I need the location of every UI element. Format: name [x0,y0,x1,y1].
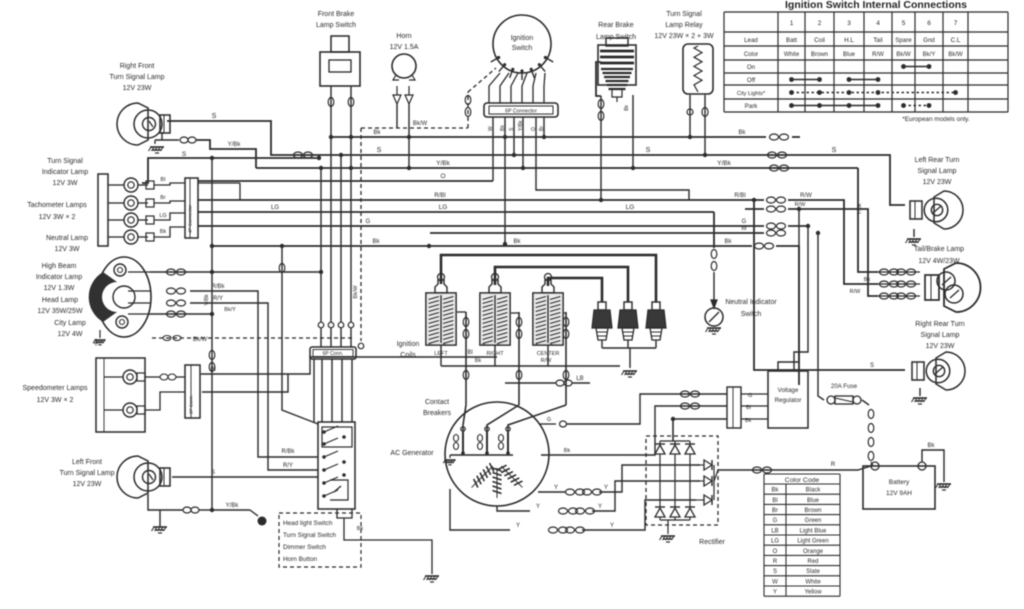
svg-text:LG: LG [271,205,279,211]
svg-text:S: S [377,147,382,154]
svg-text:S: S [870,363,874,369]
svg-text:Y: Y [516,523,520,529]
svg-text:Switch: Switch [512,45,533,52]
svg-text:S: S [773,569,777,575]
svg-text:Br: Br [539,126,545,131]
svg-text:H.L: H.L [844,37,854,44]
svg-text:Y: Y [598,504,602,510]
svg-text:Br: Br [772,508,778,514]
svg-text:Tail/Brake Lamp: Tail/Brake Lamp [914,246,964,253]
svg-text:Rectifier: Rectifier [699,539,725,546]
svg-text:12V 3W × 2: 12V 3W × 2 [37,397,74,404]
svg-text:Batt: Batt [786,37,797,44]
svg-text:Y: Y [773,590,777,596]
svg-text:Horn Button: Horn Button [283,556,318,563]
svg-text:Switch: Switch [741,311,762,318]
svg-text:20A Fuse: 20A Fuse [831,383,858,390]
svg-text:Lead: Lead [744,37,758,44]
svg-text:LG: LG [771,539,779,545]
svg-text:Bl: Bl [467,350,472,356]
svg-text:Right Front: Right Front [120,63,155,70]
svg-text:Bk: Bk [372,239,380,245]
svg-text:R/W: R/W [795,202,807,208]
svg-text:Turn Signal Lamp: Turn Signal Lamp [110,74,165,81]
svg-text:Rear Brake: Rear Brake [598,22,634,29]
svg-text:G: G [773,518,778,524]
svg-text:LB: LB [771,528,778,534]
svg-text:High Beam: High Beam [42,263,77,270]
svg-text:R/W: R/W [541,358,553,364]
svg-text:4: 4 [876,20,880,27]
svg-text:Tachometer Lamps: Tachometer Lamps [27,202,87,209]
svg-text:S: S [646,147,651,154]
svg-text:12V 9AH: 12V 9AH [886,490,912,497]
svg-text:Gnd: Gnd [923,37,935,44]
svg-text:Y/Bk: Y/Bk [717,160,731,167]
svg-text:R/Bk: R/Bk [281,449,295,455]
svg-text:Orange: Orange [803,549,824,555]
svg-text:2P Conn.: 2P Conn. [189,395,194,414]
svg-text:LG: LG [159,213,166,219]
svg-text:RIGHT: RIGHT [486,351,504,357]
svg-text:*European models only.: *European models only. [902,116,970,123]
svg-text:Y: Y [604,485,608,491]
svg-text:Turn Signal Lamp: Turn Signal Lamp [60,470,115,477]
svg-text:Bk: Bk [927,443,935,449]
svg-text:City Lights*: City Lights* [737,91,766,97]
svg-text:Color Code: Color Code [785,477,820,484]
svg-text:Bk: Bk [357,526,364,532]
svg-text:Bk: Bk [738,130,746,136]
svg-text:Slate: Slate [806,569,820,575]
svg-text:Y: Y [536,504,540,510]
svg-text:O: O [440,173,445,180]
svg-text:Y/Bk: Y/Bk [518,120,524,131]
svg-text:12V 23W × 2 + 3W: 12V 23W × 2 + 3W [654,33,714,40]
svg-text:Head light Switch: Head light Switch [283,520,333,527]
svg-text:Bk: Bk [624,105,630,111]
svg-text:12V 23W: 12V 23W [73,481,102,488]
svg-text:Signal Lamp: Signal Lamp [921,332,960,339]
svg-text:Battery: Battery [889,479,910,486]
svg-text:12V 23W: 12V 23W [123,85,152,92]
svg-text:Regulator: Regulator [775,397,802,404]
svg-text:G: G [547,417,551,423]
svg-text:LG: LG [626,204,635,211]
svg-text:Bk/Y: Bk/Y [224,307,236,313]
svg-text:R/W: R/W [800,193,812,199]
svg-text:R/Y: R/Y [283,463,293,469]
svg-text:Lamp Switch: Lamp Switch [596,34,636,41]
svg-text:S: S [211,470,215,476]
svg-text:Speedometer Lamps: Speedometer Lamps [23,385,88,392]
svg-text:Bk: Bk [160,229,167,235]
svg-text:Bk/W: Bk/W [948,52,963,58]
svg-text:Green: Green [805,518,822,524]
svg-text:W: W [741,226,747,232]
svg-text:3: 3 [847,20,851,27]
svg-text:S: S [212,113,217,120]
svg-text:Light Blue: Light Blue [800,528,827,534]
svg-text:Lamp Switch: Lamp Switch [316,22,356,29]
svg-text:Bk/W: Bk/W [353,285,359,299]
svg-text:Coil: Coil [814,37,825,44]
svg-text:Bk/Y: Bk/Y [923,52,936,58]
svg-text:White: White [784,52,800,58]
svg-text:S: S [182,151,187,158]
svg-text:Color: Color [744,52,758,58]
svg-text:R/Bk: R/Bk [211,284,225,290]
svg-text:Brown: Brown [804,508,821,514]
svg-text:Indicator Lamp: Indicator Lamp [36,274,82,281]
svg-text:12V 3W: 12V 3W [53,180,78,187]
svg-text:12V 4W: 12V 4W [58,331,83,338]
svg-text:12V 23W: 12V 23W [926,343,955,350]
svg-text:Bl: Bl [161,177,166,183]
svg-text:Left Rear Turn: Left Rear Turn [915,157,960,164]
svg-text:12V 1.3W: 12V 1.3W [44,285,75,292]
svg-text:Bk: Bk [373,130,381,136]
svg-text:12V 4W/23W: 12V 4W/23W [918,258,960,265]
svg-text:Left Front: Left Front [72,459,102,466]
svg-text:Bk/W: Bk/W [896,52,911,58]
svg-text:6P Connector: 6P Connector [505,109,537,115]
svg-text:Turn Signal: Turn Signal [666,11,702,18]
svg-text:Tail: Tail [873,37,882,44]
svg-text:LB: LB [576,376,583,382]
svg-text:Off: Off [747,77,755,84]
svg-text:Bk: Bk [564,448,571,454]
svg-text:Bk: Bk [513,239,521,245]
svg-text:7: 7 [954,20,958,27]
svg-text:Bk: Bk [724,239,732,245]
svg-text:5: 5 [902,20,906,27]
svg-text:R: R [773,559,778,565]
svg-text:Bk/W: Bk/W [413,121,428,127]
svg-text:Br: Br [160,195,166,201]
svg-text:W: W [488,126,494,131]
svg-text:Y: Y [610,523,614,529]
svg-text:12V 35W/25W: 12V 35W/25W [37,308,83,315]
svg-text:Voltage: Voltage [778,387,799,394]
svg-text:Turn Signal: Turn Signal [47,158,83,165]
svg-text:Bk/W: Bk/W [193,337,208,343]
svg-text:G: G [742,219,747,225]
svg-text:R/W: R/W [872,52,884,58]
svg-text:Ignition Switch Internal Conne: Ignition Switch Internal Connections [785,0,967,11]
svg-text:O: O [773,549,778,555]
svg-text:6: 6 [927,20,931,27]
svg-text:Y/Bk: Y/Bk [436,160,450,167]
svg-text:City Lamp: City Lamp [54,320,86,327]
svg-text:Y/Bk: Y/Bk [228,142,242,148]
svg-text:Horn: Horn [396,33,411,40]
svg-text:LG: LG [439,204,448,211]
svg-text:12V 3W: 12V 3W [55,246,80,253]
svg-text:R/Bl: R/Bl [434,193,445,199]
svg-text:Signal Lamp: Signal Lamp [918,168,957,175]
svg-text:Breakers: Breakers [423,410,452,417]
svg-text:Ignition: Ignition [397,341,420,348]
svg-text:12V 1.5A: 12V 1.5A [390,44,419,51]
svg-text:Yellow: Yellow [804,590,822,596]
svg-text:Indicator Lamp: Indicator Lamp [42,169,88,176]
svg-text:Contact: Contact [425,399,449,406]
svg-text:R/Bl: R/Bl [734,193,745,199]
svg-text:Bl: Bl [210,367,215,373]
svg-text:S: S [832,147,837,154]
svg-text:Bk: Bk [500,125,506,131]
svg-text:Y/Bk: Y/Bk [226,503,240,509]
svg-text:O: O [531,127,537,131]
svg-text:Red: Red [807,559,818,565]
svg-text:Bk: Bk [771,488,779,494]
svg-text:Neutral Lamp: Neutral Lamp [46,235,88,242]
svg-text:2: 2 [818,20,822,27]
svg-text:Blue: Blue [807,498,820,504]
svg-text:On: On [747,64,756,71]
svg-text:R: R [831,462,836,468]
svg-text:Blue: Blue [843,52,856,58]
svg-text:CENTER: CENTER [537,351,560,357]
svg-text:12V 3W × 2: 12V 3W × 2 [39,214,76,221]
svg-text:4P Connector: 4P Connector [188,205,193,233]
svg-text:Brown: Brown [811,52,828,58]
svg-text:Park: Park [745,103,759,110]
svg-text:G: G [366,219,371,225]
svg-text:Right Rear Turn: Right Rear Turn [915,321,965,328]
svg-text:R/W: R/W [850,289,862,295]
svg-text:Y: Y [554,485,558,491]
svg-text:Y/Bk: Y/Bk [204,294,210,306]
svg-text:Light Green: Light Green [797,539,828,545]
svg-text:C.L: C.L [951,37,961,44]
svg-text:Turn Signal Switch: Turn Signal Switch [283,532,336,539]
svg-text:12V 23W: 12V 23W [923,179,952,186]
svg-text:W: W [772,579,778,585]
svg-text:R/Y: R/Y [213,296,223,302]
svg-text:Spare: Spare [895,37,912,44]
svg-text:Coils: Coils [400,352,416,359]
svg-text:Front Brake: Front Brake [318,11,355,18]
svg-text:AC Generator: AC Generator [390,450,434,457]
svg-text:LEFT: LEFT [434,351,448,357]
svg-text:1: 1 [790,20,794,27]
svg-text:Dimmer Switch: Dimmer Switch [283,544,326,551]
svg-text:Black: Black [806,488,822,494]
svg-text:Ignition: Ignition [511,35,534,42]
svg-text:6P Conn.: 6P Conn. [323,351,344,357]
svg-text:White: White [805,579,821,585]
svg-text:Head Lamp: Head Lamp [42,297,78,304]
svg-text:Bk: Bk [475,358,482,364]
svg-text:Lamp Relay: Lamp Relay [665,22,703,29]
svg-text:Neutral Indicator: Neutral Indicator [725,299,777,306]
svg-text:Bl: Bl [772,498,777,504]
